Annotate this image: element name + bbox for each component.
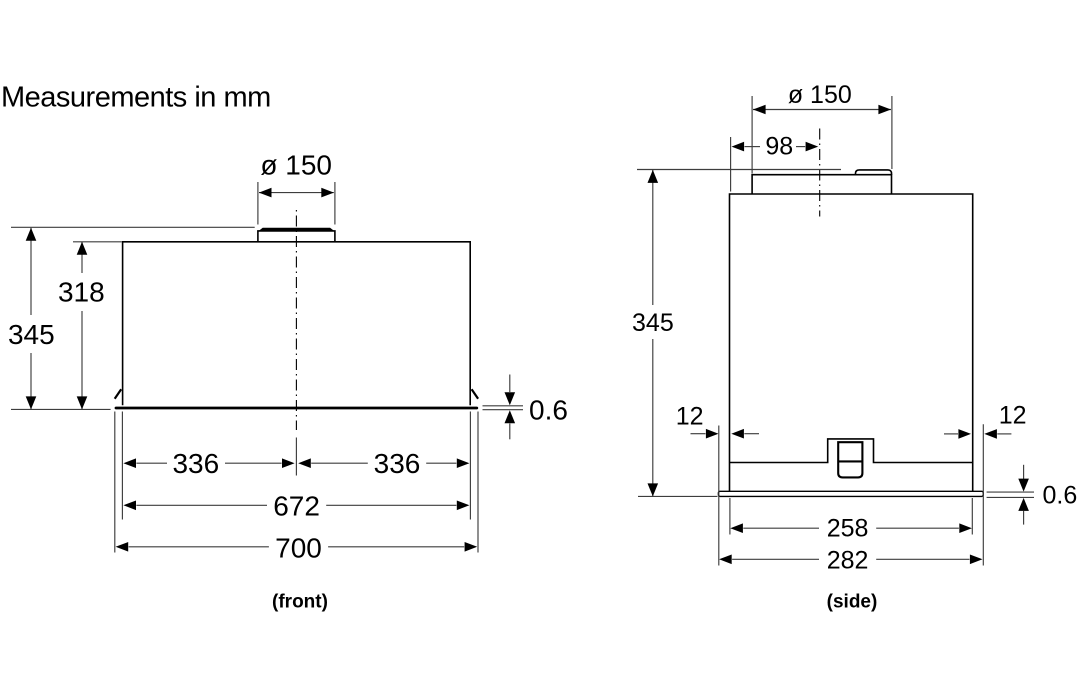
bottom plate front [115, 407, 479, 410]
duct lip front [258, 228, 335, 232]
dimension 336 right [298, 458, 311, 468]
svg-text:282: 282 [827, 546, 869, 574]
extension line 318 top front [73, 241, 122, 243]
dimension 0.6 side [987, 491, 1034, 493]
svg-text:336: 336 [172, 448, 219, 479]
dia 150 dimension side [753, 109, 891, 111]
dimension 98 side [730, 137, 732, 192]
inner bottom recess line with notch [730, 439, 973, 463]
dimension 672 [123, 501, 136, 511]
extension line 345 top front [11, 226, 255, 228]
extension line 345 top side [637, 169, 841, 171]
hood box front [123, 242, 471, 405]
dimension 336 left [123, 458, 136, 468]
svg-text:336: 336 [374, 448, 421, 479]
dimension 258 [730, 523, 743, 533]
svg-text:(front): (front) [272, 592, 328, 613]
duct lip side [856, 170, 892, 175]
corner tick right [472, 389, 479, 399]
extension line bottom-left front [11, 408, 111, 410]
extension line 345 bottom side [638, 495, 718, 497]
svg-text:0.6: 0.6 [1043, 481, 1078, 509]
svg-text:12: 12 [676, 402, 704, 430]
svg-text:(side): (side) [827, 592, 878, 613]
mounting bracket [838, 442, 862, 477]
dimension 0.6 front [483, 405, 524, 407]
svg-text:318: 318 [58, 277, 105, 308]
dimension 345 side [652, 170, 654, 305]
svg-text:258: 258 [827, 515, 869, 543]
svg-text:345: 345 [8, 319, 55, 350]
centerline side [819, 129, 821, 217]
svg-text:700: 700 [275, 532, 322, 563]
svg-text:98: 98 [765, 132, 793, 160]
svg-text:0.6: 0.6 [529, 395, 568, 426]
dia 150 extension lines side [751, 96, 753, 174]
svg-text:12: 12 [999, 402, 1027, 430]
dimension 345 front [30, 228, 32, 315]
svg-text:672: 672 [273, 490, 320, 521]
bottom plate side [718, 491, 983, 496]
duct collar front [258, 231, 335, 242]
duct collar side [752, 175, 891, 194]
bottom extension lines front [114, 412, 116, 553]
svg-text:345: 345 [632, 309, 674, 337]
svg-text:Measurements in mm: Measurements in mm [1, 82, 271, 114]
corner tick left [115, 389, 122, 399]
svg-text:ø 150: ø 150 [788, 81, 852, 109]
hood box side [730, 194, 973, 493]
dimension 318 front [81, 242, 83, 273]
bracket divider [838, 460, 862, 462]
center extension line front [295, 438, 297, 476]
svg-text:ø 150: ø 150 [260, 149, 332, 180]
dimension 282 [719, 555, 732, 565]
centerline front [295, 210, 297, 430]
dia 150 extension lines front [257, 182, 259, 225]
extension lines 258 [729, 498, 731, 535]
dimension 700 [116, 542, 129, 552]
dia 150 dimension front [259, 192, 334, 194]
